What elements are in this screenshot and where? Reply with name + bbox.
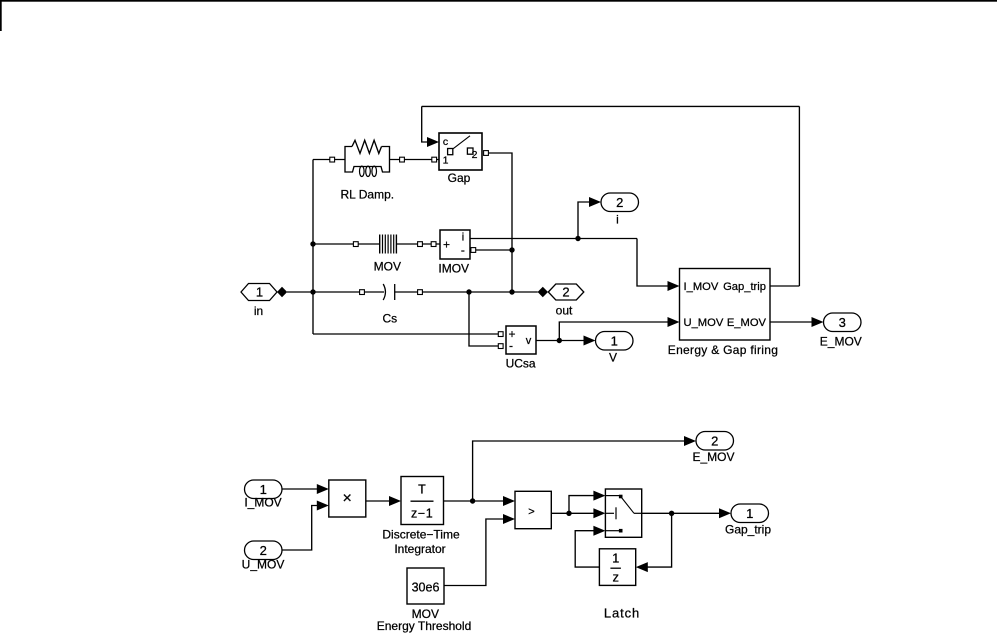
discrete-time integrator block	[382, 477, 460, 557]
svg-text:Energy Threshold: Energy Threshold	[377, 619, 472, 633]
port square IMOV input	[431, 242, 436, 247]
svg-text:+: +	[443, 237, 450, 251]
svg-text:I_MOV: I_MOV	[684, 281, 719, 293]
port square UCsa minus	[498, 344, 503, 349]
svg-text:in: in	[254, 304, 263, 318]
port square UCsa plus	[498, 332, 503, 337]
wire feedback top horizontal	[422, 105, 800, 107]
wire integrator to relational	[444, 500, 505, 502]
port Out2 oval "2" (E_MOV)	[692, 432, 734, 465]
port square RL right	[400, 157, 405, 162]
arrow into relational in1	[503, 496, 515, 506]
svg-text:Discrete−Time: Discrete−Time	[382, 528, 460, 542]
subsystem Energy & Gap firing block	[668, 269, 778, 358]
svg-text:Gap: Gap	[448, 171, 471, 185]
arrow into integrator	[389, 496, 401, 506]
wire branch to switch in1	[569, 496, 595, 514]
wire v branch to U_MOV input	[559, 322, 668, 341]
svg-text:i: i	[462, 232, 464, 244]
port Out hexagon "2" (out)	[548, 284, 584, 317]
arrow into switch in1	[593, 491, 605, 501]
wire in to left bus	[287, 291, 313, 293]
svg-text:Latch: Latch	[604, 606, 640, 621]
junction switch top branch	[566, 511, 571, 516]
junction at i branch	[575, 236, 580, 241]
left vertical bus wire	[312, 160, 314, 335]
svg-text:UCsa: UCsa	[506, 356, 536, 370]
arrow into unit delay input	[636, 562, 648, 572]
svg-text:3: 3	[839, 315, 846, 330]
wire I_MOV to product	[282, 488, 318, 490]
port square RL left	[330, 157, 335, 162]
port square Gap output 2	[484, 151, 489, 156]
connection diamond at out	[538, 287, 548, 297]
wire UCsa v output	[536, 340, 585, 342]
arrow into Gap c port	[427, 137, 439, 147]
svg-text:2: 2	[711, 434, 718, 449]
unit delay 1/z block	[599, 549, 635, 586]
svg-text:-: -	[461, 243, 465, 257]
switch block (Latch switch)	[604, 489, 642, 621]
port In2 oval "2" (U_MOV)	[242, 541, 285, 572]
junction E_MOV branch	[470, 498, 475, 503]
wire Gap_trip output to feedback	[770, 285, 799, 287]
svg-text:30e6: 30e6	[412, 580, 440, 594]
svg-text:z−1: z−1	[411, 507, 433, 521]
arrow into I_MOV port	[668, 281, 680, 291]
svg-text:out: out	[556, 303, 573, 317]
product block X	[329, 480, 366, 517]
port square IMOV minus	[471, 248, 476, 253]
svg-text:E_MOV: E_MOV	[727, 317, 767, 329]
svg-text:×: ×	[343, 490, 352, 507]
junction at MOV row	[310, 241, 315, 246]
wire RL to Gap	[390, 159, 440, 161]
wire unit delay output to switch in3	[575, 531, 599, 567]
capacitor Cs	[382, 284, 397, 326]
arrow into U_MOV port	[668, 317, 680, 327]
junction UCsa minus branch	[466, 289, 471, 294]
wire feedback down to unit delay	[647, 513, 672, 567]
arrow into relational in2	[503, 514, 515, 524]
svg-text:E_MOV: E_MOV	[692, 450, 734, 464]
svg-text:MOV: MOV	[374, 260, 401, 274]
wire MOV row left	[313, 243, 380, 245]
wire Gap output to bus	[489, 153, 513, 292]
port square MOV left	[353, 242, 358, 247]
wire Cs row left	[313, 291, 384, 293]
svg-text:1: 1	[256, 285, 263, 300]
port In1 hexagon "1" (in)	[241, 284, 277, 319]
svg-text:Energy & Gap firing: Energy & Gap firing	[668, 343, 778, 357]
svg-text:-: -	[509, 339, 513, 353]
voltage measurement UCsa block	[506, 326, 536, 370]
wire U_MOV to product	[282, 506, 318, 551]
port Out2 oval "2" (i)	[601, 193, 639, 226]
junction Gap bus on out row	[509, 289, 514, 294]
arrow into port E_MOV	[812, 317, 824, 327]
port square Gap input 1	[432, 157, 437, 162]
arrow into port Gap_trip	[719, 508, 731, 518]
breaker Gap block	[439, 133, 482, 185]
svg-text:c: c	[443, 136, 448, 148]
arrow into switch in3	[593, 526, 605, 536]
svg-text:2: 2	[260, 543, 267, 558]
svg-text:2: 2	[562, 285, 569, 300]
junction latch feedback	[669, 511, 674, 516]
svg-text:E_MOV: E_MOV	[820, 335, 862, 349]
svg-text:T: T	[418, 483, 426, 497]
connection diamond at in	[277, 287, 287, 297]
wire Cs to out	[395, 291, 538, 293]
svg-text:2: 2	[616, 195, 623, 210]
svg-text:I_MOV: I_MOV	[244, 496, 281, 510]
svg-text:RL Damp.: RL Damp.	[341, 188, 395, 202]
svg-text:V: V	[609, 350, 617, 364]
relational operator block >	[515, 491, 551, 528]
current measurement IMOV block	[438, 230, 470, 276]
wire MOV to IMOV	[396, 243, 440, 245]
wire UCsa minus input	[469, 292, 499, 346]
svg-text:i: i	[616, 212, 619, 226]
svg-text:1: 1	[443, 155, 449, 167]
wire IMOV minus to bus	[476, 249, 512, 251]
arrow into port i	[589, 197, 601, 207]
wire feedback right vertical	[798, 106, 800, 286]
arrow into switch in2	[593, 508, 605, 518]
port square Cs left	[360, 290, 365, 295]
wire switch to Gap_trip	[642, 512, 720, 514]
wire E_MOV output	[770, 321, 813, 323]
port square Cs right	[418, 290, 423, 295]
page frame top border	[0, 0, 997, 31]
junction at in row	[310, 289, 315, 294]
arrow into product in1	[317, 484, 329, 494]
svg-text:U_MOV: U_MOV	[242, 558, 285, 572]
svg-text:U_MOV: U_MOV	[684, 317, 724, 329]
port Out3 oval "3" (E_MOV)	[820, 313, 862, 349]
svg-text:Gap_trip: Gap_trip	[723, 281, 766, 293]
wire branch up to port i	[578, 202, 591, 239]
arrow into port V	[584, 336, 596, 346]
port In1 oval "1" (I_MOV)	[244, 480, 282, 510]
svg-text:1: 1	[612, 551, 619, 566]
svg-text:IMOV: IMOV	[438, 262, 469, 276]
svg-text:Cs: Cs	[382, 312, 397, 326]
port Out1 oval "1" (V)	[596, 332, 634, 365]
svg-text:v: v	[526, 335, 532, 347]
svg-text:1: 1	[611, 333, 618, 348]
wire feedback vertical into Gap c	[422, 106, 429, 142]
arrow into port E_MOV	[684, 436, 696, 446]
svg-text:1: 1	[746, 506, 753, 521]
resistor-inductor RL Damp. block	[341, 140, 395, 201]
port square MOV right	[418, 242, 423, 247]
svg-text:Integrator: Integrator	[394, 542, 445, 556]
varistor MOV symbol	[374, 235, 401, 274]
wire RL row left	[313, 159, 345, 161]
junction IMOV minus on bus	[509, 247, 514, 252]
port Out1 oval "1" (Gap_trip)	[725, 504, 771, 537]
junction v branch	[557, 338, 562, 343]
wire 30e6 to relational	[444, 519, 504, 586]
svg-text:2: 2	[472, 149, 478, 161]
wire i to I_MOV input	[637, 239, 669, 287]
svg-text:>: >	[528, 506, 534, 518]
svg-text:Gap_trip: Gap_trip	[725, 523, 771, 537]
wire relational to switch	[551, 512, 595, 514]
arrow into product in2	[317, 501, 329, 511]
wire IMOV i output	[470, 238, 637, 240]
svg-text:z: z	[612, 570, 619, 585]
wire UCsa plus input	[313, 333, 499, 335]
wire branch up to E_MOV out	[473, 441, 684, 501]
wire product to integrator	[366, 500, 391, 502]
constant 30e6 block	[377, 568, 472, 633]
